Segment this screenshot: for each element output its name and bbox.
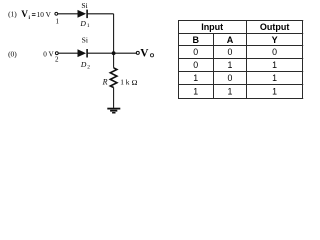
D2 material label Si [82,35,88,44]
input 1 source label "Vi = 10 V" [21,9,51,21]
svg-text:0: 0 [228,73,233,83]
output terminal [136,51,139,54]
svg-text:i: i [29,15,31,21]
svg-text:0 V: 0 V [43,50,54,58]
svg-text:1: 1 [272,73,277,83]
input 2 state label "(0)" [8,50,17,59]
svg-text:10 V: 10 V [37,10,52,19]
input 2 source label "0 V" [43,50,54,58]
diode D2 [78,49,88,58]
svg-text:Ω: Ω [132,78,138,87]
terminal pin label 2 [55,56,59,64]
svg-text:Output: Output [260,22,290,32]
svg-text:R: R [102,78,108,87]
input terminal 1 [55,12,58,15]
input 1 state label "(1)" [8,10,17,19]
svg-text:B: B [192,35,199,45]
svg-text:V: V [140,47,149,59]
D2 reference label [80,60,90,70]
R value label 1 kOhm [120,78,137,87]
svg-text:0: 0 [228,47,233,57]
svg-text:2: 2 [87,64,90,70]
wire corner down to output node [113,14,115,53]
wire node to resistor top [113,53,115,68]
svg-text:1: 1 [193,73,198,83]
resistor R [110,68,117,88]
R reference label [102,78,108,87]
svg-text:D: D [79,19,86,28]
svg-text:(1): (1) [8,10,17,19]
svg-text:0: 0 [272,47,277,57]
svg-text:1: 1 [228,87,233,97]
ground [107,108,120,114]
svg-text:1: 1 [272,60,277,70]
junction node [112,51,116,55]
svg-text:Si: Si [81,1,87,10]
svg-text:2: 2 [55,56,59,64]
wire D2 cathode to output terminal [88,52,137,54]
D1 material label Si [81,1,87,10]
svg-text:D: D [80,60,87,69]
wire D1 cathode to corner [88,13,114,15]
input terminal 2 [55,52,58,55]
D1 reference label [79,19,90,29]
svg-text:A: A [227,35,234,45]
svg-text:1: 1 [55,17,59,25]
svg-text:1: 1 [120,78,124,87]
svg-text:0: 0 [193,47,198,57]
svg-text:Si: Si [82,35,88,44]
svg-text:Input: Input [201,22,223,32]
wire input1 to D1 anode [58,13,78,15]
wire resistor bottom to ground [113,88,115,108]
svg-text:1: 1 [193,87,198,97]
terminal pin label 1 [55,17,59,25]
svg-text:Y: Y [272,35,278,45]
wire input2 to D2 anode [59,52,78,54]
output label Vo [140,47,153,59]
diode D1 [78,10,88,19]
truth table [178,20,303,99]
svg-text:V: V [21,9,28,19]
svg-text:(0): (0) [8,50,17,59]
svg-text:1: 1 [228,60,233,70]
svg-text:0: 0 [193,60,198,70]
svg-text:1: 1 [272,87,277,97]
svg-text:1: 1 [87,23,90,29]
svg-text:k: k [126,78,130,87]
